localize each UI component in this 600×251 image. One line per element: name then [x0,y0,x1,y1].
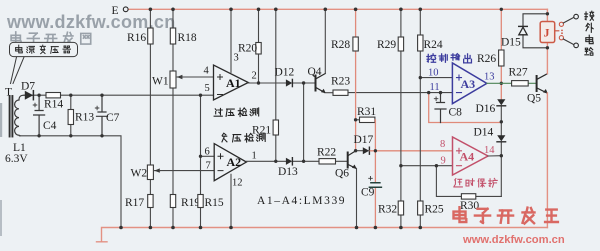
wire red pin8 line D17 to A4 [370,150,452,152]
wire bottom-left return [20,136,121,228]
wire red relay column [546,9,548,227]
wire sense to pin6 / R15 column [200,95,202,227]
svg-text:A4: A4 [460,150,475,164]
svg-text:W1: W1 [152,76,169,88]
diode D16 [497,99,505,105]
svg-text:Q6: Q6 [335,168,349,180]
svg-text:R32: R32 [378,204,397,216]
relay J coil [540,22,555,43]
wire green control output line [487,82,536,84]
svg-text:www.dzkfw.com.cn: www.dzkfw.com.cn [462,234,565,246]
transistor Q6 [347,153,349,168]
wire W2 wiper to A2 pin7 [160,170,215,172]
resistor R28 [353,37,358,51]
transistor Q4 [315,76,317,91]
wire pin10 tap [420,77,452,79]
wire R24-R25 column [419,9,421,227]
svg-text:C9: C9 [361,187,375,199]
svg-text:R15: R15 [205,197,224,209]
capacitor C9 [369,183,381,187]
svg-text:A3: A3 [461,77,476,91]
diode D7 [25,91,33,100]
wire R30 feedback loop [436,166,501,197]
op-amp A1 [214,65,249,100]
svg-text:2: 2 [252,71,257,82]
wire R29-R32 column [400,9,402,227]
resistor R30 [461,194,475,199]
svg-text:R13: R13 [75,112,94,124]
svg-text:R23: R23 [331,76,350,88]
capacitor C8 [435,93,446,123]
svg-text:4: 4 [204,66,210,77]
watermark: gray 电子开发网 [11,32,91,45]
top rail junction dots [149,8,423,12]
svg-text:D12: D12 [275,67,295,79]
svg-text:R25: R25 [425,204,444,216]
resistor R23 [333,90,348,95]
svg-text:7: 7 [206,161,211,172]
svg-text:D15: D15 [501,37,521,49]
wire A1 output to Q4 base [248,82,315,84]
capacitor C7 [97,95,108,136]
label 控制输出 [427,54,472,63]
wire W1 wiper to A1 pin4 [182,76,214,78]
op-amp A2 [214,144,246,181]
top power rail [129,8,548,10]
capacitor C4 [34,95,45,136]
diode D17 [356,150,363,152]
bottom ground rail [97,228,548,242]
wire sense line horizontal [24,94,214,96]
op-amp A4 [453,137,489,175]
wire red C9 column [374,120,376,228]
svg-text:13: 13 [484,72,495,83]
svg-text:14: 14 [484,145,495,156]
resistor R14 [46,93,61,98]
svg-text:R27: R27 [509,67,528,79]
svg-text:12: 12 [232,178,243,189]
resistor R15 [198,195,203,208]
resistor R24 [418,35,423,51]
svg-text:E: E [112,5,119,17]
diode D14 [497,135,505,141]
resistor R26 [499,50,504,66]
svg-text:J: J [544,26,550,40]
svg-text:A2: A2 [227,155,242,169]
svg-text:R28: R28 [331,39,350,51]
resistor R17 [148,195,153,208]
wire Q4 emitter to R23 [326,92,333,94]
svg-text:R22: R22 [317,147,336,159]
svg-text:5: 5 [205,83,210,94]
svg-text:D16: D16 [476,103,496,115]
svg-text:11: 11 [430,82,440,93]
svg-text:A1: A1 [226,76,241,90]
junction dots relay [546,12,549,15]
label 接外电路 vertical [585,11,594,55]
resistor R32 [398,201,403,215]
wire R21 pull-up column [275,9,277,161]
wire R23 to A3 pin11 [348,92,452,94]
svg-text:W2: W2 [131,168,148,180]
svg-text:R18: R18 [178,32,197,44]
diode D15 flyback branch [523,14,547,48]
wire A2 output to Q6 base [246,160,347,162]
resistor R16 [148,28,153,44]
wire Q6 emitter to ground [356,169,358,228]
resistor R22 [319,159,336,164]
svg-text:Q5: Q5 [527,93,541,105]
wire column R18-W1-R19 [172,9,174,227]
wire A4 output [488,155,501,157]
op-amp A3 [452,63,486,104]
resistor R27 [512,81,529,86]
transistor Q5 [536,76,538,91]
svg-text:R20: R20 [238,43,257,55]
svg-text:R17: R17 [125,197,144,209]
wire red D16-D14 column [500,83,502,99]
svg-text:R26: R26 [477,53,496,65]
label 欠压检测 [222,133,265,142]
svg-text:9: 9 [441,156,446,167]
junction dots mid-left [199,94,202,97]
wire R20 pull-up column [258,9,260,83]
svg-text:R30: R30 [460,200,479,212]
transformer T core [9,96,11,137]
wire link D12-node to D13-node [303,83,305,161]
wire red C8 loop [429,93,502,123]
svg-text:R14: R14 [44,99,63,111]
watermark red 电子开发王 [454,207,558,223]
svg-text:C8: C8 [449,107,463,119]
svg-text:R29: R29 [377,39,396,51]
svg-text:D7: D7 [21,81,35,93]
svg-text:6.3V: 6.3V [5,153,28,165]
svg-text:R16: R16 [127,32,146,44]
svg-text:R21: R21 [252,125,271,137]
wire red R28 column [355,9,357,150]
label 延时保护 [454,178,497,187]
svg-text:C7: C7 [106,112,120,124]
resistor R29 [398,37,403,51]
relay contacts [555,30,559,32]
diode D13 [286,158,292,165]
resistor R18 [170,28,175,44]
svg-text:D13: D13 [278,166,298,178]
svg-text:T: T [5,87,12,99]
potentiometer W2 [147,165,153,180]
wire A1 pin3 from rail [230,9,232,72]
junction dots middle [257,81,260,84]
svg-text:10: 10 [428,68,439,79]
wire R26 column top [500,9,502,83]
node junctions left [37,94,40,97]
svg-text:Q4: Q4 [308,66,322,78]
svg-text:D14: D14 [474,127,494,139]
svg-text:A1–A4:LM339: A1–A4:LM339 [257,195,346,207]
svg-text:6: 6 [205,147,210,158]
label 过压检测 [214,108,259,117]
junction dots right-mid [419,76,422,79]
bottom rail junction dots [119,226,422,230]
svg-text:D17: D17 [354,134,374,146]
wire A2 pin12 to ground [230,174,232,227]
inductor L1 coil [15,95,24,136]
wire pin9 line [401,165,453,167]
wire column R16-W2-R17 [149,9,151,227]
svg-text:R24: R24 [424,39,443,51]
svg-text:1: 1 [252,151,257,162]
resistor R31 [356,119,360,121]
potentiometer W1 [170,71,176,88]
label bubble 电源变压器 [10,42,78,56]
resistor R25 [418,201,423,215]
diode D12 [286,79,292,86]
wire Q4 collector to rail [324,9,326,73]
resistor R13 [70,95,72,136]
svg-text:R31: R31 [357,106,376,118]
resistor R19 [170,195,175,208]
svg-text:C4: C4 [43,120,57,132]
node E terminal [123,7,128,12]
resistor R21 [273,120,278,135]
svg-text:8: 8 [440,139,445,150]
resistor R20 [256,43,261,55]
